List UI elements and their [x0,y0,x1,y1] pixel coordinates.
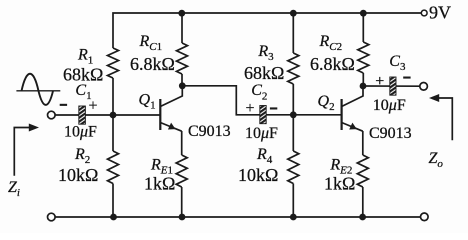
terminal: 9V supply terminal [421,2,451,22]
resistor R3 68k [244,13,299,115]
wire: Q1 collector to Q2 base through C2 [182,86,341,115]
svg-text:C9013: C9013 [188,123,231,140]
resistor R2 10k [58,115,119,217]
resistor R1 68k [63,46,119,115]
transistor Q2 NPN C9013 [318,86,412,142]
node: Q1 collector / RC1 / C2 junction [179,82,186,89]
svg-text:C9013: C9013 [369,125,412,142]
svg-text:68kΩ: 68kΩ [63,65,103,85]
node: R3 top on supply rail [290,10,297,17]
resistor RC1 6.8k [130,13,188,86]
terminal: bottom-left input return [48,213,56,221]
wire: Q2 collector to output node through C3 [363,85,420,87]
node: RE2 to bottom rail [359,214,366,221]
wire: input node to Q1 base through C1 [55,114,160,116]
node: R1/R2/C1/Q1-base junction [110,112,117,119]
svg-text:+: + [246,100,255,117]
node: R4 to bottom rail [290,214,297,221]
output impedance Zo pointer arrow [429,94,453,170]
svg-text:10kΩ: 10kΩ [58,165,98,185]
svg-text:10μF: 10μF [373,97,406,114]
capacitor C3 10uF electrolytic [373,53,411,114]
wire: +9V top supply rail [113,13,421,48]
capacitor C1 10uF electrolytic [60,82,98,141]
resistor RE1 1k [144,131,187,217]
node: Q2 collector / RC2 / C3 junction [360,83,367,90]
node: R2 to bottom rail [110,214,117,221]
terminal: signal input node [48,111,56,119]
svg-text:6.8kΩ: 6.8kΩ [130,54,175,74]
signal source sine wave symbol [16,74,60,105]
input impedance Zi pointer arrow [8,124,39,199]
svg-text:10kΩ: 10kΩ [238,165,278,185]
node: RE1 to bottom rail [179,214,186,221]
terminal: signal output node [420,83,428,91]
node: RC1 top on supply rail [178,10,185,17]
svg-text:+: + [89,98,98,115]
transistor Q1 NPN C9013 [139,86,231,140]
terminal: bottom-right output return [421,213,429,221]
svg-text:10μF: 10μF [245,125,278,142]
svg-text:1kΩ: 1kΩ [324,174,355,194]
resistor R4 10k [238,115,299,217]
svg-text:68kΩ: 68kΩ [244,63,284,83]
wire: bottom common rail [55,216,420,218]
svg-text:1kΩ: 1kΩ [144,174,175,194]
resistor RE2 1k [324,131,368,217]
node: RC2 top on supply rail [360,10,367,17]
capacitor C2 10uF electrolytic [245,82,278,142]
resistor RC2 6.8k [310,13,369,86]
svg-text:6.8kΩ: 6.8kΩ [310,54,355,74]
svg-text:10μF: 10μF [64,124,97,141]
svg-text:9V: 9V [429,2,451,22]
node: R3/R4/C2/Q2-base junction [290,111,297,118]
svg-text:+: + [375,73,384,90]
